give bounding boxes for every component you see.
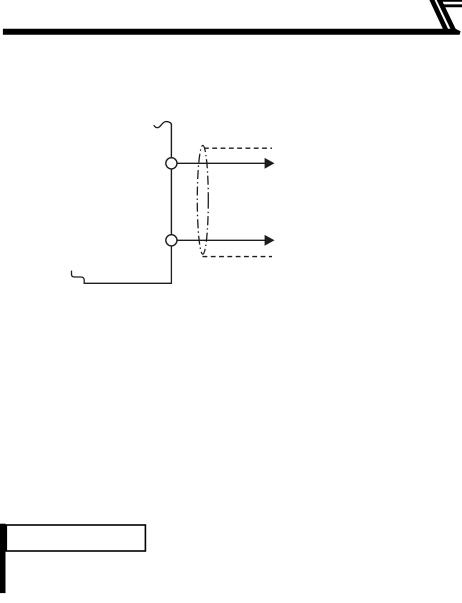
- corner tab top edge line: [441, 0, 462, 2]
- corner tab second edge line: [444, 4, 462, 7]
- header title bar: [3, 29, 461, 35]
- arrowhead 1: [265, 158, 275, 169]
- wire vertical bus lower segment and bottom return wire: [72, 246, 172, 283]
- terminal circle node 1: [166, 158, 177, 169]
- cable boundary dashed bottom: [203, 256, 273, 258]
- signal line 2: [177, 239, 265, 241]
- shield ellipse: [197, 145, 208, 254]
- wire vertical bus upper segment: [170, 124, 172, 158]
- corner tab outer diagonal: [429, 0, 448, 29]
- wire vertical bus middle segment: [170, 169, 172, 235]
- arrowhead 2: [265, 235, 275, 246]
- corner tab inner diagonal: [437, 0, 456, 29]
- wire break squiggle top: [154, 122, 172, 128]
- terminal circle node 2: [166, 235, 177, 246]
- signal line 1: [177, 162, 265, 164]
- cable boundary dashed top: [204, 147, 272, 149]
- sidebar black tab: [0, 524, 6, 593]
- caption box: [6, 525, 145, 551]
